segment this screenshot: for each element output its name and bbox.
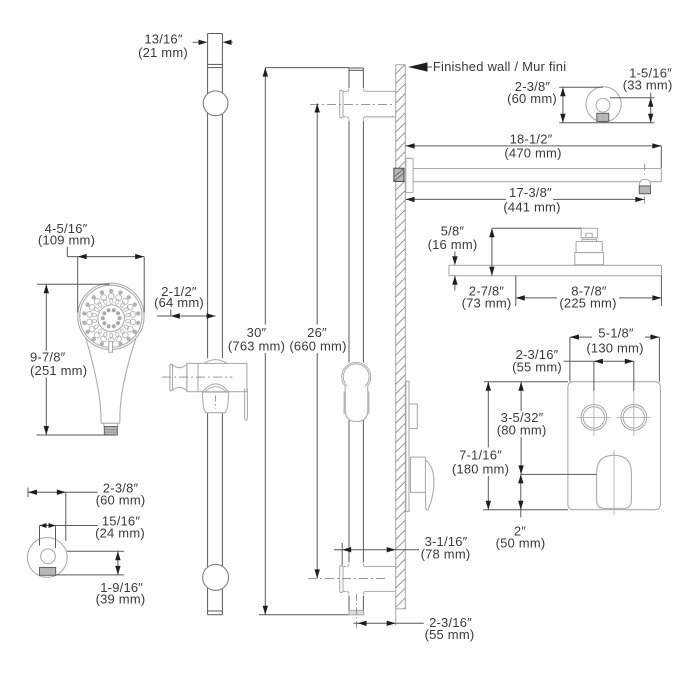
svg-text:(109 mm): (109 mm) [38, 233, 95, 248]
svg-text:(78 mm): (78 mm) [421, 546, 471, 561]
wall supply elbow face view (bottom left) [27, 538, 67, 578]
svg-text:(130 mm): (130 mm) [586, 341, 643, 356]
hand shower hanging in holder (side view) [342, 362, 371, 421]
svg-text:(55 mm): (55 mm) [512, 360, 562, 375]
dimension 2-1/2 inch (64 mm) holder depth [154, 284, 215, 319]
escutcheon outlet (gray) [597, 113, 609, 121]
slide bar bottom cap (side view) [349, 610, 364, 614]
slide bar top knob (front view) [203, 91, 228, 116]
svg-text:(225 mm): (225 mm) [559, 295, 616, 310]
dimension 1-5/16 inch (33 mm) escutcheon offset [610, 66, 672, 123]
hand shower outlet nozzle (gray) [104, 427, 117, 436]
svg-text:(60 mm): (60 mm) [96, 493, 146, 508]
dimension 3-1/16 inch (78 mm) bracket depth [334, 534, 472, 565]
holder centerline [162, 376, 232, 378]
svg-text:(64 mm): (64 mm) [154, 295, 204, 310]
dimension 17-3/8 inch (441 mm) nozzle reach [406, 185, 645, 214]
dimension 2 inch (50 mm) lever offset [483, 474, 597, 550]
dimension 1-9/16 inch (39 mm) outlet drop [56, 551, 146, 606]
dimension 13/16 inch (21 mm) bar width [138, 32, 233, 60]
slide bar bottom knob (front view) [203, 564, 229, 590]
svg-text:(80 mm): (80 mm) [497, 423, 547, 438]
svg-text:(763 mm): (763 mm) [228, 338, 285, 353]
svg-text:17-3/8″: 17-3/8″ [509, 185, 552, 200]
svg-text:(21 mm): (21 mm) [138, 45, 188, 60]
dimension 5/8 inch (16 mm) head thickness [428, 224, 478, 291]
hand shower mode switch tab [109, 341, 113, 352]
valve trim plate edge (side view) [406, 381, 409, 511]
svg-text:(660 mm): (660 mm) [289, 338, 346, 353]
svg-text:(50 mm): (50 mm) [496, 536, 546, 551]
dimension 2-3/8 inch (60 mm) elbow escutcheon diameter [28, 480, 145, 541]
hand shower head face view [78, 283, 144, 349]
dimension 2-3/16 inch (55 mm) bar offset from wall [354, 594, 477, 642]
valve knob left [577, 391, 612, 436]
hand shower holder on slide bar (front view) [170, 360, 247, 392]
rain shower head plate (profile) [449, 265, 662, 275]
shower arm [413, 169, 661, 182]
hand shower handle (face view) [86, 338, 136, 426]
valve knob right [616, 391, 651, 436]
dimension 8-7/8 inch (225 mm) head width [516, 276, 662, 311]
svg-text:(39 mm): (39 mm) [96, 592, 146, 607]
svg-text:(16 mm): (16 mm) [428, 237, 478, 252]
svg-text:(55 mm): (55 mm) [425, 627, 475, 642]
dimension 4-5/16 inch (109 mm) head diameter [38, 221, 144, 312]
svg-text:(24 mm): (24 mm) [95, 526, 145, 541]
dimension 26 inch (660 mm) bracket spacing [288, 104, 396, 579]
svg-text:(180 mm): (180 mm) [452, 462, 509, 477]
svg-text:(251 mm): (251 mm) [30, 363, 87, 378]
svg-text:(441 mm): (441 mm) [503, 199, 560, 214]
dimension 3-5/32 inch (80 mm) knob offset [484, 382, 568, 475]
top wall bracket of slide bar [340, 89, 396, 120]
label finished wall / mur fini [408, 59, 566, 74]
dimension 2-3/16 inch (55 mm) knob spacing [512, 347, 634, 391]
dimension 9-7/8 inch (251 mm) hand shower length [29, 284, 116, 435]
slide bar (front view) [208, 34, 223, 615]
svg-text:(73 mm): (73 mm) [462, 295, 512, 310]
dimension 30 inch (763 mm) bar length [227, 68, 350, 615]
svg-text:18-1/2″: 18-1/2″ [510, 131, 553, 146]
supply elbow outlet (gray) [40, 567, 56, 575]
dimension 7-1/16 inch (180 mm) plate height [451, 382, 511, 510]
dimension 5-1/8 inch (130 mm) plate width [570, 326, 660, 382]
cradle hook clip [245, 388, 248, 420]
rain head ball connector stack [575, 228, 604, 264]
finished wall (hatched section) [396, 65, 406, 626]
dimension 2-3/8 inch (60 mm) escutcheon diameter [507, 79, 654, 123]
svg-text:(60 mm): (60 mm) [507, 91, 557, 106]
bottom wall bracket of slide bar [340, 564, 396, 595]
valve trim plate (front view) [568, 382, 661, 510]
dimension 18-1/2 inch (470 mm) arm reach [406, 131, 662, 168]
shower arm end drop nozzle [639, 179, 650, 193]
valve lever (front view) [597, 450, 632, 515]
dimension 15/16 inch (24 mm) elbow inner diameter [40, 514, 145, 549]
svg-text:5-1/8″: 5-1/8″ [598, 326, 634, 341]
nozzle centerline [644, 164, 646, 206]
svg-text:(33 mm): (33 mm) [623, 78, 673, 93]
svg-text:Finished wall / Mur fini: Finished wall / Mur fini [433, 59, 566, 74]
hand shower supply escutcheon (top right) [586, 87, 621, 122]
slide bar (side view) [349, 68, 363, 610]
dimension 2-7/8 inch (73 mm) head height [462, 228, 582, 310]
valve knob (side view) [409, 404, 417, 429]
hand shower cradle bell (front view) [202, 384, 228, 413]
shower arm flange [406, 158, 413, 192]
valve lever (side view) [411, 457, 434, 510]
svg-text:7-1/16″: 7-1/16″ [459, 447, 502, 462]
in-wall supply elbow for shower arm (gray) [394, 168, 404, 181]
svg-text:(470 mm): (470 mm) [504, 145, 561, 160]
